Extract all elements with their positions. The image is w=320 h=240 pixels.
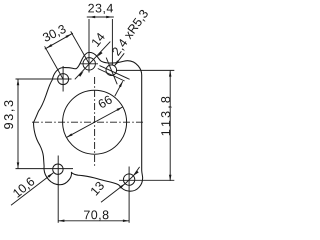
H5 vertical centerline / 70,8 right extension (128, 167, 130, 223)
part outline (34, 52, 143, 191)
leader arrow for 2,4 gap (115, 81, 123, 96)
hole H2 top-middle d14 (83, 58, 95, 70)
113,8 arrows (169, 70, 172, 76)
30,3 arrows (46, 44, 53, 49)
93,3 text (4, 101, 15, 129)
dimension 93,3 line (17, 79, 19, 169)
H5 horizontal centerline / 113,8 bottom extension (119, 179, 174, 181)
10,6 text (12, 177, 36, 199)
note text 2,4 xR5,3 (111, 9, 150, 57)
66 arrows (66, 133, 73, 138)
leader R5,3 to H3 (114, 53, 124, 66)
dimension 14 leader line (75, 42, 111, 80)
13 text (90, 181, 105, 196)
H4 vertical centerline / 70,8 left extension (57, 156, 59, 223)
dimension 113,8 line (169, 70, 171, 180)
big bore circle d66 (63, 90, 127, 154)
H4 horizontal centerline / 93,3 bottom extension (16, 168, 74, 170)
dimension 23,4 line (87, 16, 114, 18)
23,4 arrows (89, 16, 95, 19)
23,4 right extension (111, 19, 113, 65)
30,3 extension from H2 (71, 31, 90, 63)
H1 vertical centerline (62, 66, 64, 92)
dimension 66 line across bore (67, 107, 123, 137)
hole H3 top-right R5,3 (106, 65, 117, 76)
leader 10,6 to H4 (11, 173, 53, 206)
hole H4 bottom-left d10,6 (53, 164, 63, 174)
66 text (97, 95, 112, 109)
H1 horizontal centerline / 93,3 top extension (16, 78, 72, 80)
113,8 text (161, 97, 172, 136)
dimension 30,3 line (45, 33, 73, 49)
hole H1 top-left (58, 74, 69, 85)
H3 rotated centerline A (100, 66, 130, 80)
H3 horizontal extension to 113,8 (116, 69, 174, 71)
30,3 extension from H1 (45, 46, 64, 79)
93,3 arrows (17, 79, 20, 85)
parallel line B of 2,4 gap (98, 69, 125, 82)
14 text (91, 32, 105, 47)
23,4 text (88, 4, 113, 14)
70,8 arrows (58, 220, 64, 223)
70,8 text (84, 210, 109, 220)
leader 13 to H5 (101, 167, 140, 202)
dimension 70,8 line (58, 220, 129, 222)
14 arrows (78, 71, 84, 77)
H2 vertical centerline / 23,4 left extension (88, 19, 90, 73)
horizontal centerline of bore (32, 121, 145, 123)
hole H5 bottom-right d13 (123, 174, 134, 185)
H2 horizontal centerline (81, 63, 99, 65)
30,3 text (42, 24, 67, 43)
vertical centerline of bore (94, 77, 96, 168)
H3 rotated centerline C (106, 58, 117, 85)
